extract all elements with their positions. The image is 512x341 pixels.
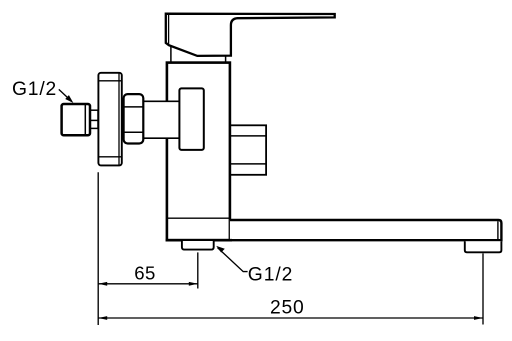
svg-text:65: 65 [134,263,156,284]
svg-text:G1/2: G1/2 [12,79,57,100]
svg-text:250: 250 [270,297,305,318]
svg-text:G1/2: G1/2 [248,265,293,286]
